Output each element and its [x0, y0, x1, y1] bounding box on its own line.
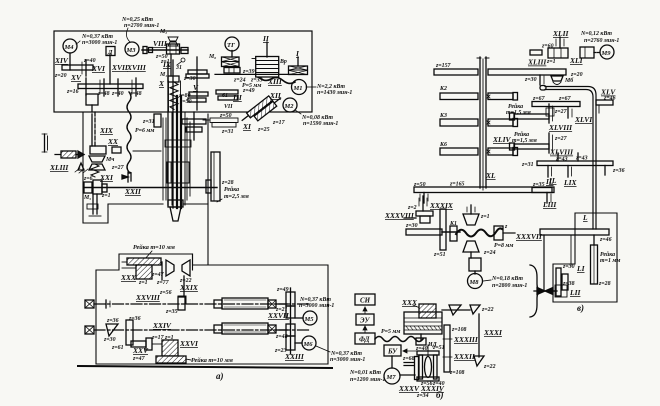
figure a) baseline [78, 366, 332, 368]
belt to M1 [259, 78, 295, 84]
svg-text:XVIII: XVIII [126, 63, 147, 72]
svg-text:z=35: z=35 [165, 309, 178, 315]
svg-text:z=24: z=24 [483, 250, 496, 256]
svg-text:LIII: LIII [542, 200, 557, 209]
pinion z=50 below bar [423, 193, 425, 204]
spring XXI [91, 164, 99, 177]
shaft II [266, 42, 268, 57]
shaft drop from bar [543, 235, 545, 291]
svg-text:XLVIII: XLVIII [548, 123, 573, 132]
maltese cross / screw P=8mm [463, 214, 479, 225]
svg-text:z=50: z=50 [219, 113, 232, 119]
svg-text:М5: М5 [304, 316, 315, 323]
gearbar z=165 [414, 187, 554, 193]
svg-text:z=40: z=40 [111, 91, 124, 97]
svg-text:z=36: z=36 [106, 318, 119, 324]
bevel cone pair [106, 324, 118, 336]
svg-text:XLI: XLI [569, 56, 584, 65]
svg-text:М9: М9 [601, 50, 612, 57]
svg-text:z=27: z=27 [111, 165, 125, 171]
gearbox housing box A [54, 31, 312, 112]
gearbar L z=46 [540, 229, 609, 235]
svg-text:z=22: z=22 [481, 307, 494, 313]
svg-text:II: II [262, 34, 270, 43]
shaft down from XXI [92, 194, 94, 214]
rack K6 [440, 148, 478, 155]
svg-text:М2: М2 [284, 103, 295, 110]
svg-text:XXIX: XXIX [179, 283, 199, 292]
svg-text:X: X [158, 79, 165, 88]
svg-text:Вр: Вр [279, 59, 287, 65]
svg-text:XXIV: XXIV [152, 321, 172, 330]
spindle shaft line [215, 73, 290, 75]
motor M7 [391, 356, 393, 368]
elbow shaft to v) [545, 87, 596, 230]
svg-text:L: L [582, 213, 588, 222]
svg-text:z=36: z=36 [128, 316, 141, 322]
feed box outline [83, 112, 163, 223]
shaft XLVI marks [567, 107, 569, 118]
svg-text:n=2800 мин-1: n=2800 мин-1 [492, 283, 527, 289]
svg-text:z=27: z=27 [554, 109, 568, 115]
svg-text:К3: К3 [439, 113, 447, 119]
svg-text:XXX: XXX [120, 273, 137, 282]
carriage block [167, 162, 189, 183]
shaft I pulley [297, 57, 299, 66]
svg-text:XLIII: XLIII [527, 58, 547, 67]
helical gear pair XI [240, 91, 283, 128]
arrows between boxes [363, 307, 367, 314]
box BU [384, 345, 401, 356]
svg-text:z=1: z=1 [138, 280, 148, 286]
shaft VIII [153, 29, 170, 65]
svg-text:а): а) [216, 371, 224, 381]
clutch K1 [450, 226, 457, 241]
svg-text:z=31: z=31 [221, 129, 234, 135]
gear stack XXIII [286, 324, 295, 336]
hatched block [419, 304, 436, 318]
svg-text:N=0,01 кВт: N=0,01 кВт [349, 370, 381, 376]
shaft down to M8 [470, 252, 472, 258]
svg-text:XLIV: XLIV [492, 135, 512, 144]
svg-text:n=3000 мин-1: n=3000 мин-1 [82, 40, 117, 46]
svg-text:XLVIII: XLVIII [549, 148, 574, 157]
gear cluster M5 [84, 182, 92, 193]
shaft XXVIII [85, 300, 94, 308]
svg-text:ТГ: ТГ [227, 42, 235, 49]
svg-text:XXXV: XXXV [398, 384, 420, 393]
svg-text:XX: XX [107, 137, 119, 146]
motor M3 [125, 42, 139, 56]
gear stack XXVII [286, 292, 295, 306]
svg-text:XXV: XXV [132, 346, 149, 355]
svg-text:ФД: ФД [359, 336, 370, 344]
svg-text:z=43: z=43 [575, 156, 588, 162]
svg-text:LII: LII [569, 288, 582, 297]
encoder table [404, 312, 442, 334]
svg-text:IL: IL [545, 177, 554, 186]
svg-text:VII: VII [224, 104, 233, 110]
svg-text:z=28: z=28 [598, 281, 611, 287]
shaft XLIII mechanism left [44, 134, 46, 152]
shaft X spring [170, 82, 178, 109]
svg-text:z=157: z=157 [435, 63, 452, 69]
svg-text:z=47: z=47 [132, 356, 146, 362]
shaft XXX encoder [401, 298, 418, 307]
svg-text:z=50: z=50 [413, 182, 426, 188]
shaft XXXIX vertical [422, 196, 424, 211]
box SI [355, 294, 375, 305]
svg-text:XLII: XLII [552, 29, 570, 38]
svg-text:М₁: М₁ [159, 72, 167, 78]
motor M4 [63, 39, 77, 53]
svg-text:XXXI: XXXI [483, 328, 503, 337]
rack m=2.5 [211, 152, 220, 201]
svg-text:z=77: z=77 [156, 280, 170, 286]
svg-text:I: I [295, 49, 300, 58]
gearbar VII below box [210, 118, 238, 123]
svg-text:М1: М1 [293, 85, 303, 92]
svg-text:P=8 мм: P=8 мм [494, 243, 513, 249]
svg-text:z=31: z=31 [142, 119, 155, 125]
shaft XXII [84, 187, 217, 189]
svg-text:z=34: z=34 [416, 393, 429, 399]
svg-text:XIII: XIII [267, 77, 283, 86]
svg-text:z=46: z=46 [599, 237, 612, 243]
leadscrew cylinder 1 [214, 300, 222, 308]
svg-text:М4: М4 [64, 44, 75, 51]
gears below box A on shaft IV [182, 119, 206, 124]
svg-text:z=68: z=68 [402, 356, 415, 362]
svg-text:в): в) [577, 303, 584, 313]
svg-text:P=5 мм: P=5 мм [381, 329, 400, 335]
gear z=51 tall [440, 209, 446, 250]
svg-text:Рейка m=10 мм: Рейка m=10 мм [191, 357, 234, 364]
section v) box [553, 213, 617, 302]
svg-text:z=30: z=30 [562, 264, 575, 270]
nut on leadscrew [122, 175, 128, 179]
shaft V gears [196, 57, 198, 110]
svg-text:z=6: z=6 [83, 176, 93, 182]
caption b) [436, 390, 444, 400]
svg-text:n=1200 мин-1: n=1200 мин-1 [350, 377, 385, 383]
svg-text:z=67: z=67 [532, 96, 546, 102]
planetary cluster XXXIV/XXXV [415, 357, 419, 380]
svg-text:z=31: z=31 [521, 162, 534, 168]
tachogenerator TG [225, 37, 239, 51]
svg-text:XXXVIII: XXXVIII [384, 211, 415, 220]
svg-text:z=49: z=49 [276, 287, 289, 293]
svg-text:n=3000 мин-1: n=3000 мин-1 [299, 303, 334, 309]
svg-text:XV: XV [70, 73, 82, 82]
bevel gears to vertical shaft [449, 305, 480, 315]
svg-text:P=6 мм: P=6 мм [135, 128, 154, 134]
svg-text:z=67: z=67 [558, 96, 572, 102]
gear z=30 under bar [539, 75, 541, 85]
caption a) [216, 371, 224, 381]
pulley pair on TG shaft [222, 57, 240, 67]
svg-text:z=1: z=1 [480, 214, 490, 220]
svg-text:БУ: БУ [387, 348, 398, 356]
svg-text:XI: XI [242, 122, 252, 131]
shaft IV vertical [167, 62, 169, 205]
double arrow clutch [534, 290, 557, 292]
svg-text:z=46: z=46 [603, 96, 616, 102]
svg-text:z=48: z=48 [275, 334, 288, 340]
gearbar z=35 small [532, 188, 552, 193]
motor M8 [468, 274, 483, 289]
rack pair 2 m=1.5 [512, 131, 537, 144]
pinion housing 2 hatched [162, 340, 178, 356]
svg-text:z=40: z=40 [415, 346, 428, 352]
rack z=157 bar [434, 69, 478, 75]
gear z=39 [224, 68, 240, 74]
screw VII vertical [176, 96, 178, 208]
svg-text:Мб: Мб [564, 77, 574, 84]
shaft XLIV vertical pair [479, 57, 481, 188]
pinion under z=36 [604, 166, 606, 176]
shaft XXIX vertical to XXVIII [183, 276, 185, 296]
svg-text:LI: LI [576, 264, 586, 273]
svg-text:LIX: LIX [563, 178, 578, 187]
svg-text:n=1430 мин-1: n=1430 мин-1 [317, 90, 352, 96]
svg-text:Рейка: Рейка [600, 251, 615, 258]
clutch XX [90, 146, 106, 154]
svg-text:z=108: z=108 [449, 370, 465, 376]
shaft IX vertical [170, 54, 172, 76]
pivot support [78, 163, 84, 170]
svg-text:XLIII: XLIII [49, 163, 69, 172]
svg-text:z=36: z=36 [612, 168, 625, 174]
svg-text:М₅: М₅ [83, 195, 91, 201]
svg-text:М₆: М₆ [208, 54, 216, 60]
belt pulley under M4 shaft [86, 94, 98, 105]
svg-text:z=25: z=25 [257, 127, 270, 133]
shaft LI drop [570, 235, 572, 266]
worm pair XXXVIII [416, 211, 433, 216]
motor M6 [295, 342, 302, 344]
svg-text:z=1: z=1 [164, 335, 174, 341]
shaft XIX vertical [94, 112, 96, 146]
svg-text:z=30: z=30 [524, 77, 537, 83]
svg-text:z=30: z=30 [183, 76, 196, 82]
motor M5 [295, 317, 303, 319]
svg-text:III: III [232, 93, 243, 102]
svg-text:z=61: z=61 [111, 345, 124, 351]
label N=0,25kW (M3) [121, 17, 159, 29]
motor M9 group [552, 29, 619, 44]
shaft XXIV [85, 326, 94, 334]
gearbar z=67 [532, 102, 580, 107]
shaft L vertical into box [582, 213, 588, 222]
svg-text:z=1: z=1 [101, 193, 111, 199]
svg-text:М6: М6 [303, 341, 314, 348]
svg-text:XXIII: XXIII [284, 352, 305, 361]
shaft LIII marks [546, 193, 548, 204]
svg-text:V: V [193, 83, 199, 92]
svg-text:z=28: z=28 [221, 180, 234, 186]
motor M9 [600, 45, 614, 59]
motor M1 [292, 80, 307, 95]
bottom rack m=10 [156, 356, 186, 363]
svg-text:б): б) [436, 390, 444, 400]
svg-text:n=1590 мин-1: n=1590 мин-1 [303, 121, 338, 127]
svg-text:z=108: z=108 [451, 327, 467, 333]
svg-text:z=51: z=51 [433, 252, 446, 258]
svg-text:VIII: VIII [153, 39, 168, 48]
svg-text:z=27: z=27 [554, 136, 568, 142]
leadscrew cylinder 2 [214, 325, 222, 333]
shaft M7 to cluster [400, 374, 415, 376]
svg-text:Рейка m=10 мм: Рейка m=10 мм [133, 244, 176, 251]
svg-text:z=49: z=49 [242, 88, 255, 94]
label N=0,37kW (M4) [81, 34, 117, 46]
shaft III gears [216, 90, 238, 94]
rack K2 [440, 93, 478, 100]
gears XXV [131, 341, 146, 347]
svg-text:XXII: XXII [124, 187, 142, 196]
svg-text:z=51: z=51 [432, 345, 445, 351]
svg-text:XVI: XVI [91, 64, 106, 73]
svg-text:XXXIII: XXXIII [453, 335, 479, 344]
leadscrew P=5mm wavy [381, 329, 400, 335]
svg-text:z=48: z=48 [97, 91, 110, 97]
svg-text:n=2700 мин-1: n=2700 мин-1 [124, 23, 159, 29]
vertical shaft XXXI [478, 314, 480, 357]
svg-text:z=165: z=165 [449, 182, 465, 188]
box EU [356, 314, 374, 325]
svg-text:31: 31 [175, 65, 182, 71]
svg-text:К6: К6 [439, 142, 447, 148]
cone pulley Vr [256, 57, 279, 78]
svg-text:М7: М7 [386, 374, 397, 381]
svg-text:XLVI: XLVI [574, 115, 593, 124]
shaft XIV clutch [69, 53, 71, 70]
clutch M2 cups [168, 37, 178, 46]
svg-text:z=43: z=43 [555, 157, 568, 163]
shaft XXXVI body [406, 229, 442, 235]
label XXXII [443, 356, 452, 358]
worm block on VIII [167, 44, 180, 54]
gear stack LI LII [562, 264, 586, 273]
svg-text:m=1,5 мм: m=1,5 мм [512, 138, 537, 144]
svg-text:СИ: СИ [360, 297, 371, 305]
coupling to M9 [580, 47, 594, 58]
bevel pulleys XXIX [166, 260, 190, 276]
pinion housing hatched [136, 265, 152, 279]
rack pair 1 m=1.5 [506, 103, 531, 116]
lever with ball [181, 58, 185, 62]
svg-text:К2: К2 [439, 86, 447, 92]
gear z=35 [178, 297, 185, 310]
section a) outer box [96, 254, 328, 364]
gear XLV z=46 [596, 100, 613, 105]
svg-text:z=20: z=20 [54, 73, 67, 79]
svg-text:m=2,5 мм: m=2,5 мм [224, 194, 249, 200]
clutch on XLI [530, 50, 542, 55]
pinions below z31 bar [547, 166, 549, 178]
main input shaft gears [78, 84, 143, 89]
gearbar z=31 long [537, 161, 613, 166]
top rack bar [127, 258, 161, 265]
svg-text:z=1: z=1 [546, 59, 556, 65]
svg-text:М8: М8 [469, 279, 480, 286]
bevel cups Mch [89, 156, 105, 170]
svg-text:z=22: z=22 [483, 364, 496, 370]
svg-text:Рейка: Рейка [508, 103, 523, 110]
brace [530, 265, 542, 317]
svg-text:XXVI: XXVI [179, 339, 199, 348]
svg-text:XXVIII: XXVIII [135, 293, 161, 302]
clutch M1 block [168, 76, 179, 82]
svg-text:z=38: z=38 [562, 281, 575, 287]
svg-text:XXXII: XXXII [453, 352, 476, 361]
leadscrew P=6mm wavy [127, 92, 131, 173]
svg-text:Рейка: Рейка [514, 131, 529, 138]
svg-text:m=1 мм: m=1 мм [600, 258, 620, 264]
svg-text:XIV: XIV [54, 56, 69, 65]
svg-text:ЭУ: ЭУ [360, 317, 371, 325]
svg-text:z: z [504, 224, 508, 230]
rack m=10 top label [133, 244, 176, 251]
svg-text:z=30: z=30 [405, 223, 418, 229]
bevel bottom right [474, 356, 484, 366]
svg-text:XXVII: XXVII [267, 311, 290, 320]
bell clutch Mb [551, 76, 563, 81]
svg-text:М3: М3 [126, 47, 137, 54]
carriage lower cone [168, 200, 183, 207]
box FD [355, 333, 375, 344]
clutch z right [494, 226, 503, 240]
svg-text:z=56: z=56 [159, 290, 172, 296]
svg-text:М₂: М₂ [159, 29, 167, 35]
svg-text:XXXVII: XXXVII [515, 232, 543, 241]
svg-text:Мч: Мч [105, 157, 114, 163]
svg-text:N=0,12 кВт: N=0,12 кВт [580, 31, 612, 37]
svg-text:Рейка: Рейка [224, 186, 239, 193]
svg-text:z=17: z=17 [272, 120, 286, 126]
svg-text:XIX: XIX [99, 126, 114, 135]
caption v) [577, 303, 584, 313]
svg-text:n=2760 мин-1: n=2760 мин-1 [584, 38, 619, 44]
carriage assembly outline [163, 118, 190, 200]
motor M2 [283, 98, 297, 112]
svg-text:XL: XL [485, 171, 496, 180]
gear z=31 on shaft IV [154, 114, 161, 127]
svg-text:z=30: z=30 [103, 337, 116, 343]
rack K3 [440, 119, 478, 126]
svg-text:N=0,18 кВт: N=0,18 кВт [491, 276, 523, 282]
svg-text:61: 61 [222, 93, 228, 99]
feed box right edge [207, 114, 209, 265]
svg-text:z=16: z=16 [66, 89, 79, 95]
label XXXIII [443, 338, 452, 340]
svg-text:n=3000 мин-1: n=3000 мин-1 [330, 357, 365, 363]
rack m=1 vertical [593, 235, 595, 245]
encoder D box [106, 47, 115, 56]
gear z=108 tall [444, 325, 450, 372]
